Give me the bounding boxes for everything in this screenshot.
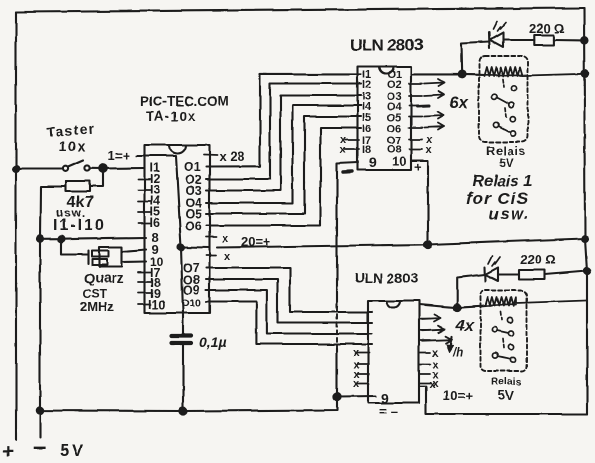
node junction minus rail / bus: [37, 407, 43, 413]
wire U3 O1 to relay K2 coil: [419, 305, 486, 308]
svg-text:I1-I10: I1-I10: [53, 217, 106, 234]
label = minus below U3: [379, 404, 397, 419]
wire U1 O10 to U3 I4: [206, 302, 372, 345]
svg-text:5V: 5V: [60, 442, 86, 460]
label ULN 2803 lower: [354, 270, 418, 286]
relay K2 contacts: [492, 317, 516, 362]
node junction cap / ground bus: [179, 407, 186, 414]
svg-text:x: x: [353, 378, 360, 390]
svg-text:O9: O9: [183, 283, 200, 297]
node junction pin20 internal: [178, 244, 184, 250]
label 4k7 usw. I1-I10: [53, 194, 106, 234]
U3 pin 10 tick and x: [419, 386, 426, 388]
label ULN 2803 upper: [350, 36, 423, 55]
svg-text:x 28: x 28: [219, 149, 244, 164]
pin 20 internal stub: [181, 246, 209, 249]
wire U1 O1 to U2 I1: [206, 74, 361, 166]
label 220 ohm upper: [529, 21, 565, 36]
wire U1 O2 to U2 I2: [206, 84, 361, 180]
crystal Q1 Quarz 2MHz: [61, 239, 146, 267]
svg-text:Relais: Relais: [491, 376, 522, 388]
capacitor C1 0,1u: [172, 313, 191, 411]
wire ground line to PIC pin 8: [37, 238, 146, 240]
label 1=+: [108, 148, 131, 163]
wire U1 O7 to U3 I1: [206, 268, 372, 312]
U1 right pin labels O1-O10: [181, 160, 202, 309]
label 4x: [455, 318, 475, 335]
U3 pin 10 wire to bottom right rail: [426, 388, 587, 414]
svg-text:9: 9: [369, 154, 377, 170]
label 220 ohm lower: [520, 252, 556, 267]
node junction coil2 / LED2: [454, 304, 461, 311]
svg-text:–: –: [33, 434, 46, 461]
label + - 5V bottom: [2, 434, 86, 463]
svg-text:x: x: [222, 233, 229, 245]
label Relais 5V upper: [486, 144, 526, 170]
node junction switch / 4k7 / PIC pin1: [99, 165, 107, 173]
wire U1 O6 to U2 I6: [206, 128, 361, 226]
svg-text:I10: I10: [148, 298, 165, 312]
U2 pin 10 wire to 20-line: [411, 161, 428, 245]
wire +5V left rail: [15, 12, 17, 440]
svg-text:ULN 2803: ULN 2803: [354, 270, 418, 286]
node junction ground vertical / bus: [333, 393, 340, 400]
svg-text:4x: 4x: [455, 318, 475, 335]
resistor R1 220 ohm: [534, 35, 585, 45]
label 0,1u: [199, 334, 227, 350]
svg-text:x: x: [429, 379, 436, 391]
wire U2 O1 to relay K1: [411, 73, 484, 76]
U3 left x marks: [353, 347, 360, 390]
U3 right pin ticks: [419, 319, 430, 384]
U3 output arrows: [422, 315, 454, 353]
svg-text:+: +: [2, 441, 14, 463]
node junction R3 / right rail: [584, 268, 590, 274]
svg-text:1=+: 1=+: [108, 148, 131, 163]
svg-text:x: x: [353, 347, 360, 359]
svg-text:5V: 5V: [499, 156, 514, 170]
U2 unused pin x marks: [340, 134, 433, 156]
label Relais 1 for CiS usw.: [466, 173, 533, 223]
relay K1 coil: [484, 67, 585, 76]
node junction 20-line / right rail: [582, 236, 588, 242]
wire U1 O4 to U2 I4: [206, 106, 361, 204]
svg-text:x: x: [426, 144, 433, 156]
svg-text:5V: 5V: [498, 388, 514, 403]
svg-text:PIC-TEC.COM: PIC-TEC.COM: [140, 94, 229, 109]
wire pin20 to right rail (20=+): [217, 239, 585, 248]
label x28: [219, 149, 244, 164]
svg-text:Quarz: Quarz: [84, 270, 124, 286]
IC U2 ULN2803 upper: [358, 67, 412, 171]
node junction R1 / right rail: [581, 37, 587, 43]
svg-text:TA-10x: TA-10x: [146, 109, 196, 124]
svg-text:220 Ω: 220 Ω: [520, 252, 556, 267]
relay K2 dashed enclosure: [481, 291, 527, 372]
U2 left pin ticks: [345, 74, 359, 149]
node junction ground / minus rail: [37, 236, 43, 242]
U2 output arrows O2-O6: [417, 79, 444, 130]
node junction coil1 / right rail: [582, 71, 588, 77]
node junction O1 / LED1: [458, 71, 465, 78]
pin x tick lower: [206, 255, 216, 257]
U1 left pin ticks I1-I16,8,9,10,I7-I10: [138, 179, 151, 305]
node junction left rail / switch: [13, 166, 19, 172]
pin x tick upper: [206, 236, 216, 238]
label Relais 5V lower: [491, 376, 522, 403]
label Quarz CST 2MHz: [80, 270, 124, 314]
wire U1 O3 to U2 I3: [206, 96, 361, 191]
U2 pin labels: [362, 69, 406, 170]
svg-text:0,1µ: 0,1µ: [199, 334, 227, 350]
label minus at U2 pin9: [343, 170, 352, 174]
svg-text:10=+: 10=+: [443, 388, 473, 403]
svg-text:/h: /h: [452, 347, 463, 359]
wire switch to PIC I1: [103, 167, 144, 170]
svg-text:I6: I6: [150, 216, 160, 230]
svg-text:220 Ω: 220 Ω: [529, 21, 565, 36]
node junction 20-line / U2 pin10: [424, 241, 431, 248]
switch S1 Taster 10x: [16, 160, 103, 171]
label Taster 10x: [46, 121, 95, 154]
svg-text:x: x: [224, 251, 231, 263]
IC U1 PIC-TEC TA-10x: [145, 145, 210, 313]
wire U1 O8 to U3 I2: [206, 280, 372, 323]
LED D1: [461, 21, 534, 74]
U2 pin 9 wire to ground vertical: [337, 163, 358, 308]
resistor R2 4k7: [40, 169, 103, 239]
relay K2 coil: [486, 298, 586, 307]
IC U3 ULN2803 lower: [368, 301, 419, 403]
wire right rail: [584, 8, 587, 414]
svg-text:x: x: [432, 347, 439, 359]
svg-text:6x: 6x: [449, 93, 469, 112]
wire U1 O5 to U2 I5: [206, 117, 361, 214]
svg-text:= –: = –: [379, 404, 397, 419]
U1 left pin labels: [148, 161, 165, 312]
svg-text:2MHz: 2MHz: [80, 299, 114, 314]
svg-text:I2: I2: [362, 79, 371, 91]
svg-text:+: +: [414, 159, 422, 174]
pin x28 tick: [204, 154, 217, 157]
svg-text:ULN 2803: ULN 2803: [350, 36, 423, 55]
U3 left unused pin ticks: [357, 353, 369, 384]
svg-text:O10: O10: [181, 297, 201, 309]
wire ground bus bottom: [40, 239, 337, 438]
wire U1 O9 to U3 I3: [206, 290, 372, 334]
label 1/h: [452, 347, 463, 359]
wire +5V top rail: [16, 8, 584, 12]
svg-text:I6: I6: [362, 123, 371, 135]
svg-text:10: 10: [392, 154, 406, 169]
relay K1 dashed enclosure: [479, 56, 528, 142]
svg-text:Relais 1: Relais 1: [472, 173, 533, 190]
U2 right pin ticks: [409, 84, 422, 150]
LED D2: [457, 256, 519, 308]
svg-text:O6: O6: [185, 219, 202, 233]
label 10=+: [443, 388, 473, 403]
resistor R3 220 ohm lower: [519, 270, 587, 280]
label 6x: [449, 93, 469, 112]
svg-text:O1: O1: [184, 160, 201, 174]
U3 right x marks: [432, 347, 439, 390]
label plus at U2 pin10: [414, 159, 422, 174]
svg-text:x: x: [340, 144, 347, 156]
label PIC-TEC.COM TA-10x: [140, 94, 229, 124]
pin 1 tick and internal +V trace: [137, 156, 183, 313]
svg-text:usw.: usw.: [489, 206, 530, 223]
relay K1 contacts: [492, 86, 517, 136]
U3 pin 9 stub: [337, 395, 376, 398]
svg-text:10x: 10x: [59, 138, 87, 154]
svg-text:O2: O2: [387, 79, 402, 91]
node junction ground / crystal: [58, 236, 64, 242]
svg-text:O6: O6: [387, 123, 402, 135]
label 9 at U3: [381, 390, 389, 406]
label 20=+: [241, 235, 271, 250]
